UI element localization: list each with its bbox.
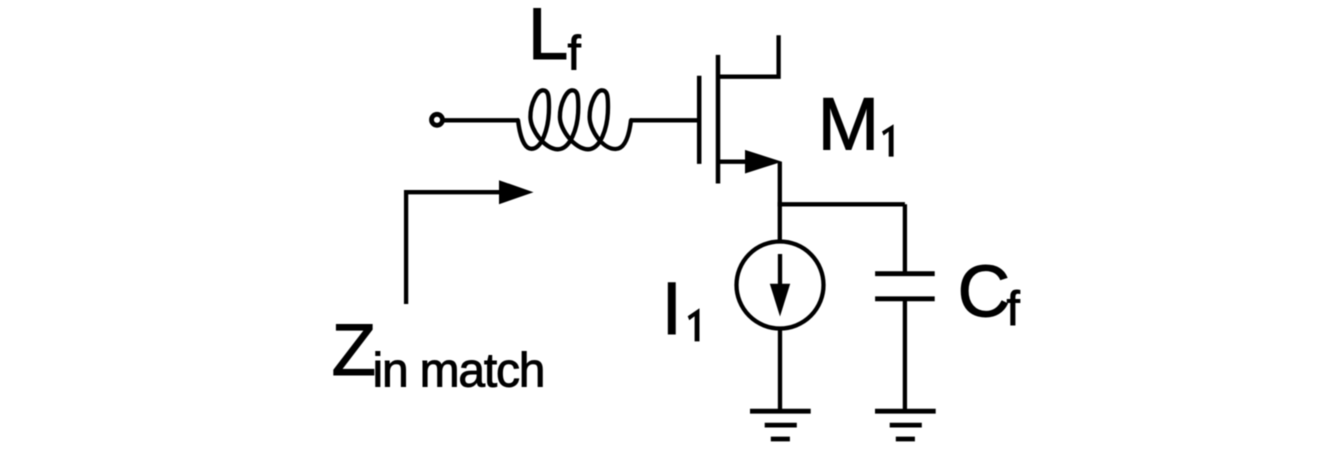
transistor M1 gate bar: [697, 76, 702, 164]
input terminal: [432, 114, 443, 125]
capacitor bottom lead: [903, 300, 907, 411]
ground 1: [750, 409, 811, 414]
svg-text:C: C: [958, 252, 1011, 333]
current source arrow: [778, 254, 782, 288]
current source I1 circle: [737, 242, 824, 329]
svg-text:in match: in match: [373, 345, 545, 398]
svg-text:I: I: [662, 267, 683, 350]
source lead: [718, 160, 752, 164]
node wire to capacitor: [778, 202, 905, 206]
source arrow: [745, 150, 782, 174]
inductor Lf: [518, 90, 631, 149]
svg-text:f: f: [1007, 283, 1021, 336]
wire inductor to gate: [630, 118, 697, 122]
svg-text:Z: Z: [332, 310, 377, 391]
svg-text:M: M: [818, 83, 880, 166]
wire current source to ground: [778, 329, 782, 412]
wire input to inductor: [443, 118, 519, 122]
capacitor Cf plates: [875, 271, 935, 276]
svg-text:L: L: [528, 0, 569, 75]
ground 2: [875, 409, 936, 414]
source vertical wire: [778, 162, 782, 243]
transistor M1 channel bar: [716, 55, 721, 184]
drain lead: [718, 35, 779, 76]
svg-text:f: f: [568, 28, 582, 81]
capacitor top lead: [903, 204, 907, 272]
Zin arrow: [406, 192, 501, 304]
